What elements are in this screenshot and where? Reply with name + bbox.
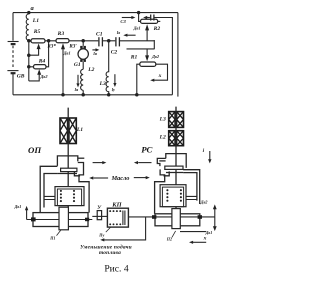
current arrow Iv left — [116, 30, 136, 37]
oil flow arrow into RS top — [134, 161, 152, 164]
piston P1 — [59, 207, 68, 230]
svg-text:R4: R4 — [38, 59, 46, 65]
valve body RS — [155, 154, 187, 214]
wire bottom — [13, 94, 172, 96]
generator G1 — [74, 41, 89, 70]
current arrow Iya down — [74, 75, 80, 92]
svg-text:Дв1: Дв1 — [133, 25, 141, 30]
wire lower branch — [127, 40, 155, 49]
current arrow Iu down — [111, 74, 117, 92]
svg-text:Дв2: Дв2 — [40, 74, 49, 79]
wire top — [13, 12, 178, 14]
svg-text:GB: GB — [17, 73, 25, 79]
inductor L3 — [99, 41, 109, 95]
wire outer right vertical — [177, 13, 179, 97]
pipe lines RS — [186, 196, 197, 199]
svg-text:Масло: Масло — [111, 175, 130, 182]
wire R1 left — [137, 64, 140, 95]
solenoid L3 coil boxes — [159, 112, 184, 128]
label Pu — [98, 227, 111, 237]
wire R5 row — [29, 40, 56, 42]
base line RS — [180, 231, 206, 233]
solenoid L1 coil boxes — [60, 118, 83, 144]
resistor R2 — [133, 19, 161, 32]
oil flow arrow out OP — [93, 161, 107, 164]
wire C2 right — [120, 40, 154, 42]
svg-text:L1: L1 — [32, 18, 39, 24]
wire R4 — [29, 41, 49, 67]
spring box OP — [55, 187, 84, 206]
svg-text:РС: РС — [141, 144, 152, 154]
junction — [107, 39, 111, 43]
junction — [47, 39, 51, 43]
resistor R5 — [31, 29, 45, 43]
svg-text:C1: C1 — [96, 31, 103, 37]
branch arrow decrease — [100, 217, 145, 242]
solenoid L2 coil boxes — [159, 131, 184, 146]
svg-text:L3: L3 — [99, 81, 106, 87]
arrow Dv2 up right — [200, 199, 217, 217]
svg-text:x: x — [203, 236, 207, 242]
svg-text:Дв1: Дв1 — [63, 51, 71, 56]
wire dashed — [12, 46, 14, 69]
resistor R1 — [130, 54, 160, 66]
wiper R5 — [29, 44, 41, 56]
svg-text:R3′: R3′ — [69, 44, 77, 50]
svg-text:L1: L1 — [76, 127, 83, 133]
capacitor C3 — [151, 15, 154, 21]
svg-text:Дв1: Дв1 — [14, 204, 22, 209]
svg-text:a: a — [31, 5, 35, 12]
svg-text:G1: G1 — [74, 62, 81, 68]
wiper column R2 R1 — [145, 24, 149, 41]
svg-text:топлива: топлива — [99, 250, 121, 256]
svg-text:Дв1: Дв1 — [205, 230, 213, 235]
battery cell 1 — [8, 42, 19, 45]
cylinder RS — [155, 214, 200, 226]
junction — [137, 11, 140, 14]
arrow x left — [189, 236, 207, 244]
wire C3 to inner right vertical — [154, 18, 172, 95]
label P1 — [49, 230, 61, 241]
wire R2 right stub — [158, 20, 161, 22]
svg-text:L2: L2 — [87, 67, 94, 73]
junction — [27, 39, 31, 43]
svg-text:L3: L3 — [159, 116, 166, 122]
inductor L1 — [26, 14, 39, 40]
wire C1 to C2 — [103, 40, 115, 42]
svg-text:ОП: ОП — [28, 145, 42, 155]
svg-text:Iу: Iу — [111, 87, 116, 92]
link rod U to KP — [92, 215, 107, 217]
valve body OP — [57, 156, 89, 213]
svg-text:Iя: Iя — [92, 51, 97, 56]
svg-text:Iв: Iв — [116, 30, 121, 35]
svg-text:П1: П1 — [49, 235, 55, 240]
rod gland nubs RS — [152, 215, 202, 219]
battery GB — [7, 71, 24, 80]
junction — [27, 53, 31, 57]
junction — [135, 93, 139, 97]
junction — [81, 93, 85, 97]
wire R2 left — [139, 13, 141, 22]
rod RS — [175, 107, 177, 209]
capacitor C1 — [96, 31, 103, 46]
svg-text:i: i — [203, 148, 205, 154]
labels R3 taps — [47, 43, 77, 56]
arrow Dv1 up left — [14, 204, 29, 220]
svg-text:L2: L2 — [159, 135, 166, 141]
rod gland nubs OP — [31, 217, 89, 221]
resistor R3 — [56, 31, 69, 43]
svg-text:Дв2: Дв2 — [151, 54, 160, 59]
valve slot OP — [61, 168, 77, 171]
junction — [61, 93, 65, 97]
svg-text:П2: П2 — [166, 237, 172, 242]
label P2 — [166, 231, 176, 242]
junction — [107, 93, 111, 97]
valve slot RS — [165, 166, 183, 169]
arrow Dv1 down right — [205, 217, 217, 235]
svg-text:C3: C3 — [120, 19, 126, 24]
oil flow arrow into OP — [89, 176, 108, 179]
rod OP — [67, 108, 69, 208]
svg-text:R1: R1 — [130, 54, 138, 60]
svg-text:x: x — [158, 73, 162, 79]
oil flow arrow out RS — [134, 176, 150, 179]
wire riser left — [28, 41, 30, 81]
junction — [27, 65, 31, 69]
svg-text:Дв2: Дв2 — [200, 199, 208, 204]
wiper R1 down — [145, 49, 149, 61]
svg-text:Пу: Пу — [98, 232, 104, 237]
label C3 with pointer arrows — [120, 16, 149, 24]
svg-text:R5: R5 — [33, 29, 41, 35]
rod horizontal RS — [155, 216, 215, 218]
svg-text:R3: R3 — [57, 31, 65, 37]
wiper R4 — [29, 69, 49, 81]
wire R3 to C1 — [69, 40, 98, 42]
cylinder OP — [33, 213, 88, 227]
current i arrow down — [203, 148, 212, 163]
svg-text:C2: C2 — [111, 49, 118, 55]
inductor L2 — [81, 67, 95, 95]
node a — [27, 5, 34, 14]
box U — [97, 205, 102, 220]
text decrease fuel — [80, 244, 132, 256]
svg-text:Iя: Iя — [74, 87, 79, 92]
svg-text:КП: КП — [111, 201, 122, 208]
piston P2 — [172, 209, 180, 229]
spring box RS — [160, 185, 186, 207]
rod KP to RS — [128, 216, 155, 218]
resistor R4 — [34, 59, 47, 69]
casing RS — [183, 170, 200, 204]
wire left lower — [12, 73, 14, 95]
pipe lines OP — [44, 196, 55, 199]
current arrow brush right — [92, 48, 99, 56]
capacitor C2 — [111, 37, 120, 55]
rod horizontal OP — [27, 219, 93, 221]
wiper R3 — [61, 43, 65, 95]
wire R1 right signal x — [150, 64, 167, 82]
svg-text:R2: R2 — [153, 26, 161, 32]
svg-text:R3*: R3* — [47, 43, 56, 50]
casing OP — [40, 166, 57, 213]
damper KP — [107, 201, 128, 227]
junction — [81, 39, 85, 43]
wire left battery branch — [12, 13, 14, 41]
svg-text:Рис. 4: Рис. 4 — [104, 263, 129, 274]
